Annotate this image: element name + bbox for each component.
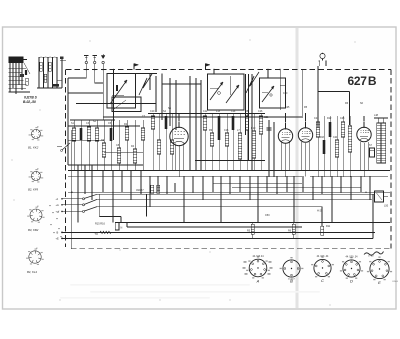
svg-text:+A: +A	[56, 203, 60, 207]
svg-text:B-02,-50: B-02,-50	[23, 100, 36, 104]
svg-text:C0504: C0504	[392, 281, 399, 283]
svg-text:A: A	[256, 278, 260, 283]
svg-text:R13: R13	[320, 136, 325, 139]
svg-text:R11: R11	[326, 225, 331, 228]
svg-text:C: C	[321, 278, 324, 283]
svg-text:-A: -A	[56, 197, 59, 201]
svg-text:627B: 627B	[348, 74, 377, 88]
svg-text:R12: R12	[327, 117, 332, 120]
svg-text:C15: C15	[224, 129, 229, 132]
svg-text:B: B	[57, 231, 59, 235]
svg-text:44 /113 .44: 44 /113 .44	[317, 255, 329, 258]
svg-text:C16: C16	[258, 110, 263, 113]
svg-text:C14: C14	[231, 110, 236, 113]
svg-text:R15 R16: R15 R16	[95, 223, 105, 226]
svg-text:C50: C50	[265, 214, 270, 217]
svg-text:L48: L48	[374, 114, 379, 117]
svg-text:44 /113 44: 44 /113 44	[252, 255, 264, 258]
svg-text:B4, KL4: B4, KL4	[27, 270, 37, 274]
svg-text:+E: +E	[56, 237, 60, 241]
svg-text:TO: TO	[95, 233, 98, 236]
svg-text:C25: C25	[285, 106, 290, 109]
svg-text:B3, KB2: B3, KB2	[28, 228, 39, 232]
svg-text:L50: L50	[384, 205, 389, 208]
svg-text:C21: C21	[314, 117, 319, 120]
svg-text:H-25: H-25	[317, 210, 323, 213]
svg-text:C21: C21	[264, 116, 269, 119]
svg-text:44 /100 .34: 44 /100 .34	[346, 256, 359, 259]
svg-text:+gf: +gf	[56, 210, 60, 214]
svg-text:E: E	[378, 280, 381, 285]
svg-text:B2, KF9: B2, KF9	[28, 188, 39, 192]
svg-text:L13: L13	[216, 110, 221, 113]
svg-text:49C27: 49C27	[136, 188, 144, 192]
svg-text:B1, KK2: B1, KK2	[28, 146, 39, 150]
svg-text:C12: C12	[203, 110, 208, 113]
svg-text:44 /117: 44 /117	[288, 279, 296, 281]
svg-text:C24: C24	[333, 136, 338, 139]
svg-text:C23: C23	[340, 117, 345, 120]
svg-text:D: D	[350, 279, 353, 284]
svg-text:C20: C20	[283, 92, 288, 95]
svg-text:R10: R10	[251, 127, 256, 130]
svg-text:C10: C10	[150, 110, 155, 113]
svg-text:N: N	[121, 227, 123, 230]
